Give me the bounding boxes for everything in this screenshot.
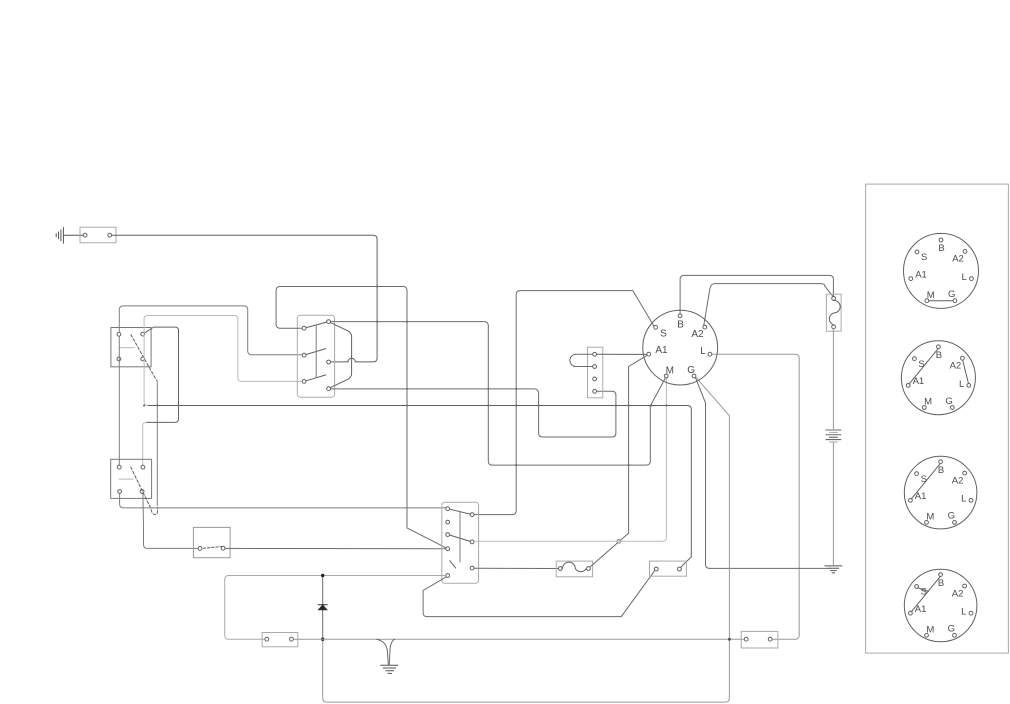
wire G-net 2: diagonal, down to bottom wire, left to diode vertical [323, 378, 730, 702]
svg-text:A2: A2 [952, 475, 964, 486]
wire J3 pin1-pin2 loop [570, 354, 593, 366]
svg-text:B: B [936, 350, 942, 361]
circuit breaker CB1 (horizontal) [556, 561, 592, 577]
svg-text:M: M [924, 397, 932, 408]
wire battery to ground [832, 442, 834, 565]
junction dot G-net2 on ground bus [728, 638, 731, 641]
svg-text:B: B [938, 578, 944, 589]
seat switch box (right of CB1) [650, 561, 687, 576]
svg-text:A2: A2 [950, 361, 962, 372]
wire SW2.leftTop loop up and down to 5-pin left pin 4 (diagonal) [276, 287, 446, 548]
5-pin interlock switch SW4 [442, 502, 479, 583]
svg-text:G: G [687, 365, 695, 376]
svg-text:A1: A1 [655, 345, 668, 356]
svg-text:G: G [948, 624, 955, 635]
wire CB2 bottom to battery [832, 329, 834, 429]
svg-text:M: M [926, 512, 934, 523]
svg-text:G: G [945, 396, 952, 407]
wire diode vertical (ground net riser) [322, 577, 324, 640]
position circle 3 (B-A1) [904, 456, 977, 529]
wire J3 pin1 to ignition A1 [597, 353, 647, 355]
wire light jog down to SW3.TR [143, 422, 147, 465]
ground tap curve [377, 639, 389, 665]
svg-text:A1: A1 [913, 376, 925, 387]
wire SW2 bracket right-top to right-bottom [331, 323, 352, 388]
panel labels [913, 243, 967, 635]
wire B-net: up from ignition B, right, down to CB2 top [680, 275, 833, 313]
svg-text:A2: A2 [952, 588, 964, 599]
ignition switch (main circle) [643, 310, 718, 385]
svg-text:G: G [948, 511, 955, 522]
svg-text:L: L [961, 494, 966, 505]
svg-text:L: L [962, 272, 967, 283]
small switch SW5 [193, 527, 230, 557]
svg-text:A2: A2 [691, 329, 704, 340]
svg-text:L: L [700, 346, 706, 357]
wire 5-pin rightBot to circuit breaker CB1 left [474, 567, 558, 569]
position circle 2 (B-A1, A2-L) [901, 341, 975, 415]
wire SW1 blade vertical extension [156, 380, 157, 506]
wire S-net: big vertical to ignition S, corner to 5-pin rightTop [474, 291, 654, 515]
wire SW1.TL down through SW1.BL to SW3.TL [118, 337, 120, 465]
switch SW1 (upper-left) [111, 328, 151, 367]
svg-text:B: B [938, 465, 944, 476]
junction marks on wires [143, 285, 668, 466]
svg-text:S: S [921, 587, 927, 598]
wire SW1.TR up-over-down to main horizontal, jog left to SW3.TR [145, 327, 179, 422]
panel rectangle (right) [866, 184, 1009, 653]
junction dot bottom of diode branch [321, 638, 324, 641]
ground (battery earth) [825, 566, 842, 573]
svg-text:S: S [921, 252, 927, 263]
wire SW3.BR down to small switch SW5 left terminal [143, 494, 198, 549]
ground (chassis, bottom) [381, 665, 398, 673]
wire M light: straight down then left to 5-pin rightMid [474, 378, 666, 541]
wire main horizontal y=405.5 to seat box right terminal [148, 406, 691, 567]
wire fuse to SW2 right-mid (top long wire, down at x=377, hop over bracket) [112, 235, 377, 362]
svg-text:A1: A1 [915, 604, 927, 615]
ground (top-left chassis ground) [56, 228, 63, 244]
wire L-net: right from ignition L, down, left to J2 right [712, 354, 799, 639]
svg-text:S: S [918, 359, 924, 370]
svg-text:M: M [927, 290, 935, 301]
switch SW2 (middle 3+3) [297, 315, 334, 397]
SW3 blade (dashed) with U-hook to SW1 blade line [131, 467, 158, 514]
position circle 4 (START: B-A1-S) [904, 569, 977, 642]
svg-text:B: B [677, 320, 684, 331]
svg-text:M: M [666, 366, 674, 377]
wire SW5 right terminal to 5-pin switch left pin 4 [225, 547, 445, 549]
svg-text:M: M [926, 624, 934, 635]
connector J2 (bottom right) [741, 631, 778, 648]
connector J3 (4-pin, middle) [588, 347, 603, 398]
panel switch position circles [901, 233, 978, 641]
wire ground to fuse [63, 234, 83, 236]
connector J1 (bottom middle) [262, 633, 298, 647]
wire SW1.TL net: up, right, down, right to SW2.leftMid [119, 306, 302, 355]
wire light net SW2.leftBot to main horizontal (x=144 vertical) [144, 316, 302, 406]
wire 5-pin leftBot dark diagonal down to y=616.6 line to seat box left [423, 571, 654, 617]
svg-text:A1: A1 [915, 491, 927, 502]
battery BT1 [826, 430, 841, 442]
wire 5-pin leftBot light: left, down, right to J1 and ground line [225, 576, 446, 640]
svg-text:A2: A2 [952, 254, 964, 265]
svg-text:G: G [948, 289, 955, 300]
circuit breaker CB2 (vertical, right) [826, 294, 841, 331]
junction dot top of diode branch [321, 574, 324, 577]
wire SW2.rightTop right, down, right (y=465) to M-net corner [331, 322, 665, 466]
wire ground bus J1.right to J2.left [294, 638, 744, 640]
svg-text:L: L [959, 379, 964, 390]
SW1 blade (dashed) [131, 335, 156, 380]
wire A1 diagonal down to CB1 right terminal [590, 356, 647, 567]
svg-text:A1: A1 [915, 269, 927, 280]
wire SW3.BL down and right to 5-pin switch left pin 1 [120, 494, 446, 508]
wire SW2.rightBot to connector pin4 with U-dip [331, 389, 616, 437]
svg-text:S: S [660, 328, 667, 339]
svg-text:B: B [938, 243, 944, 254]
switch SW3 (lower-left) [111, 459, 152, 498]
svg-text:S: S [921, 474, 927, 485]
junction circle on light M-wire at diagonal [617, 540, 621, 544]
diode D1 [318, 605, 327, 610]
wire A2-net: diagonal up, right, down to CB2 top [704, 284, 833, 326]
fuse F1 [80, 227, 116, 243]
svg-text:L: L [961, 607, 966, 618]
position circle 1 (OFF: M-G) [904, 233, 979, 308]
wire G-net 1: diagonal, down, right to battery ground [696, 378, 831, 568]
